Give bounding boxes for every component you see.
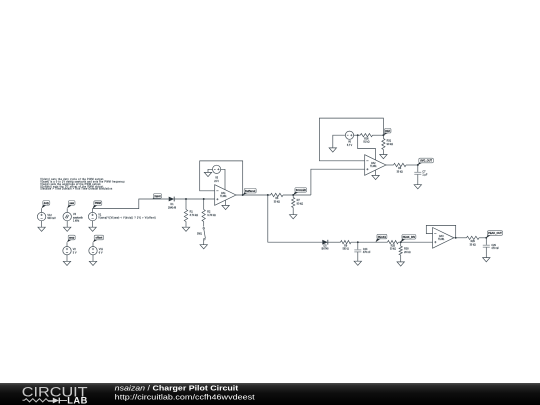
voltage source V11 (offset) bbox=[89, 242, 97, 261]
svg-text:30 kΩ: 30 kΩ bbox=[274, 202, 280, 204]
svg-text:30 kΩ: 30 kΩ bbox=[390, 249, 396, 251]
wire R6 to SCALED node bbox=[283, 194, 311, 196]
svg-text:AVG_OUT: AVG_OUT bbox=[420, 160, 432, 163]
svg-text:nsaizan / Charger Pilot Circui: nsaizan / Charger Pilot Circuit bbox=[115, 386, 239, 393]
svg-text:OA2: OA2 bbox=[371, 162, 376, 165]
OA2 feedback box wire bbox=[319, 118, 383, 161]
node flag saw bbox=[67, 201, 75, 209]
ground under C24 bbox=[354, 261, 361, 265]
voltage source V5 (OA1 supply) bbox=[213, 165, 221, 173]
ground under OA2 bbox=[372, 175, 379, 179]
wire V5 minus to ground bbox=[208, 169, 213, 172]
svg-text:PWM: PWM bbox=[95, 202, 101, 205]
wire D5 to R9 bbox=[328, 241, 341, 243]
svg-text:R20: R20 bbox=[391, 245, 396, 247]
junction node SCALED bbox=[292, 194, 294, 196]
resistor R36 bbox=[360, 134, 372, 144]
resistor R9 bbox=[341, 241, 352, 251]
ground under V4 bbox=[64, 227, 71, 231]
wire OA2 out to R8 bbox=[386, 164, 394, 166]
svg-text:saw: saw bbox=[69, 202, 74, 205]
svg-text:R36: R36 bbox=[364, 138, 369, 140]
svg-text:V(amp)*((V(saw) < V(duty)) ? 1: V(amp)*((V(saw) < V(duty)) ? 1V) + V(off… bbox=[98, 217, 156, 220]
wire PWM to D1 bbox=[93, 199, 169, 209]
capacitor C7 bbox=[414, 165, 428, 185]
capacitor C24 bbox=[354, 242, 371, 261]
svg-text:R29: R29 bbox=[471, 241, 476, 243]
wire R20 to OA3 +input bbox=[398, 241, 432, 243]
ground under C7 bbox=[414, 185, 421, 189]
wire R9 to R20 bbox=[351, 241, 388, 243]
svg-text:560 Ω: 560 Ω bbox=[343, 249, 349, 251]
logo resistor zigzag bbox=[23, 399, 53, 402]
note text block bbox=[40, 178, 125, 191]
node flag duty bbox=[42, 201, 50, 209]
voltage source V6 (reference) bbox=[345, 131, 353, 139]
resistor R6 bbox=[271, 193, 284, 203]
logo diode bbox=[53, 398, 59, 404]
wire R8 to AVG_OUT node bbox=[406, 164, 418, 166]
svg-text:Input: Input bbox=[154, 195, 160, 198]
ground under OA1 bbox=[222, 205, 229, 209]
wire V5 plus to OA1 V+ pin bbox=[221, 169, 225, 189]
svg-text:SW1: SW1 bbox=[197, 234, 203, 236]
node flag REF bbox=[383, 128, 391, 135]
wire R36 to REF node bbox=[373, 134, 384, 136]
voltage source V1 (PWM) bbox=[88, 208, 96, 227]
wire V6 to OA2 V+ pin bbox=[358, 135, 376, 160]
footer bar bbox=[0, 383, 540, 405]
svg-text:BAT48: BAT48 bbox=[322, 248, 330, 251]
ground under R31 bbox=[380, 155, 387, 159]
node flag amp bbox=[67, 235, 75, 242]
wire OA3 out to R29 bbox=[456, 237, 467, 239]
node flag SCALED bbox=[293, 188, 306, 195]
svg-text:TL081: TL081 bbox=[220, 196, 227, 198]
svg-text:http://circuitlab.com/ccfh46wv: http://circuitlab.com/ccfh46wvdeest bbox=[115, 394, 255, 401]
svg-text:3 V: 3 V bbox=[73, 251, 77, 254]
wire Buffered node down to peak chain bbox=[268, 195, 323, 242]
svg-text:500 mV: 500 mV bbox=[47, 217, 56, 220]
node flag Input bbox=[152, 194, 161, 199]
node flag PEAK1 bbox=[376, 234, 387, 242]
svg-text:PEAK_OUT: PEAK_OUT bbox=[488, 232, 502, 235]
diode D1 bbox=[169, 197, 175, 202]
junction OA3 output bbox=[455, 237, 457, 239]
junction to peak chain drop bbox=[267, 194, 269, 196]
voltage source V4 (saw) bbox=[63, 208, 71, 227]
switch SW1 bbox=[197, 227, 205, 245]
ground under V1 bbox=[89, 227, 96, 231]
resistor R31 bbox=[382, 135, 393, 154]
svg-text:duty: duty bbox=[44, 202, 50, 205]
op-amp OA3 bbox=[433, 228, 454, 249]
capacitor C29 bbox=[483, 238, 500, 258]
junction at R2 top bbox=[203, 198, 205, 200]
voltage source V2 (amp) bbox=[63, 242, 71, 261]
svg-text:3.74 kΩ: 3.74 kΩ bbox=[207, 214, 216, 217]
resistor R2 bbox=[202, 199, 216, 227]
resistor R1 bbox=[184, 199, 198, 227]
OA1 feedback loop bbox=[200, 161, 243, 195]
ground under SW1 bbox=[200, 245, 207, 249]
junction node REF bbox=[382, 134, 384, 136]
resistor R7 bbox=[292, 195, 304, 215]
svg-text:PEAK1: PEAK1 bbox=[378, 236, 387, 239]
svg-text:Buffered: Buffered bbox=[245, 190, 256, 193]
ground under V12 bbox=[38, 227, 45, 231]
resistor R30 bbox=[399, 242, 411, 262]
ground under R7 bbox=[290, 215, 297, 219]
svg-text:1 kHz: 1 kHz bbox=[73, 220, 80, 223]
svg-text:5.7 V: 5.7 V bbox=[347, 145, 353, 147]
svg-text:6 V: 6 V bbox=[99, 251, 103, 254]
svg-text:TL081: TL081 bbox=[370, 166, 377, 168]
wire SCALED to OA2 +input bbox=[311, 169, 365, 195]
node flag PWM bbox=[93, 201, 102, 209]
svg-text:REF: REF bbox=[385, 130, 390, 133]
OA1 V- ground stem bbox=[225, 200, 227, 205]
node flag Buffered bbox=[243, 188, 257, 195]
svg-text:470 nF: 470 nF bbox=[491, 247, 499, 250]
svg-text:SCALED: SCALED bbox=[296, 189, 306, 192]
svg-text:90 kΩ: 90 kΩ bbox=[297, 202, 304, 205]
ground under V2 bbox=[63, 261, 70, 265]
svg-text:24 V: 24 V bbox=[214, 181, 219, 183]
resistor R20 bbox=[388, 241, 399, 251]
svg-text:90 kΩ: 90 kΩ bbox=[387, 143, 394, 146]
wire R29 to PEAK_OUT node bbox=[479, 237, 486, 239]
node flag PEAK_OUT bbox=[486, 231, 502, 238]
ground under C29 bbox=[483, 258, 490, 262]
junction at C24 bbox=[357, 241, 359, 243]
junction node PEAK_OUT bbox=[485, 237, 487, 239]
ground under R1 bbox=[182, 227, 189, 231]
svg-text:1 µF: 1 µF bbox=[422, 174, 427, 177]
junction node Buffered bbox=[242, 194, 244, 196]
junction node PEAK_DIV bbox=[400, 241, 402, 243]
svg-text:LAB: LAB bbox=[67, 396, 88, 405]
svg-text:1N4148: 1N4148 bbox=[168, 207, 177, 209]
svg-text:OA1: OA1 bbox=[221, 192, 226, 195]
voltage source V12 (duty) bbox=[37, 208, 45, 227]
ground under V11 bbox=[89, 261, 96, 265]
svg-text:offset: offset bbox=[95, 237, 102, 240]
wire D1 to OA1 +input bbox=[174, 198, 215, 200]
OA3 feedback loop bbox=[426, 225, 455, 237]
svg-text:Simulate > Time Domain > Run T: Simulate > Time Domain > Run Time-Domain… bbox=[40, 188, 113, 191]
svg-text:91 kΩ: 91 kΩ bbox=[363, 142, 369, 144]
svg-text:30 kΩ: 30 kΩ bbox=[470, 244, 476, 246]
ground at V6 bbox=[329, 148, 336, 152]
svg-text:3.74 kΩ: 3.74 kΩ bbox=[190, 214, 199, 217]
op-amp OA1 bbox=[215, 185, 236, 206]
op-amp OA2 bbox=[365, 155, 386, 176]
svg-text:20 kΩ: 20 kΩ bbox=[404, 251, 411, 254]
svg-text:OA3: OA3 bbox=[439, 235, 444, 238]
svg-text:30 kΩ: 30 kΩ bbox=[397, 172, 403, 174]
node flag AVG_OUT bbox=[418, 158, 434, 165]
OA2 V- ground stem bbox=[375, 170, 377, 175]
svg-text:470 nF: 470 nF bbox=[363, 251, 371, 254]
svg-text:TL081: TL081 bbox=[438, 239, 445, 241]
ground under R30 bbox=[397, 262, 404, 266]
ground at V5 bbox=[204, 172, 211, 176]
node flag PEAK_DIV bbox=[401, 235, 416, 243]
resistor R8 bbox=[394, 163, 407, 173]
junction V6 plus bbox=[357, 134, 359, 136]
node flag offset bbox=[93, 235, 104, 242]
resistor R29 bbox=[467, 236, 480, 246]
diode D5 bbox=[322, 240, 328, 245]
svg-text:amp: amp bbox=[69, 237, 75, 240]
junction node AVG_OUT bbox=[417, 164, 419, 166]
svg-text:PEAK_DIV: PEAK_DIV bbox=[403, 236, 416, 239]
wire V6 minus to ground bbox=[333, 135, 346, 148]
junction at R1 top bbox=[185, 198, 187, 200]
wire Buffered to R6 bbox=[243, 194, 271, 196]
wire V6 plus to R36 bbox=[354, 134, 361, 136]
